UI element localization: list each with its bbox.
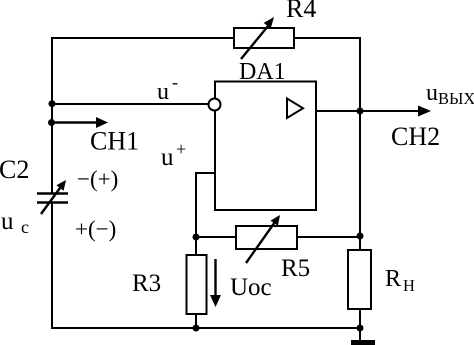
svg-text:u: u	[161, 144, 174, 171]
svg-text:+(−): +(−)	[75, 217, 116, 242]
wire left vertical lower	[51, 203, 53, 329]
svg-text:H: H	[403, 276, 415, 295]
ground	[351, 329, 375, 345]
svg-text:DA1: DA1	[239, 59, 286, 85]
svg-text:-: -	[172, 72, 178, 92]
wire right vertical feedback	[359, 37, 361, 250]
wire top horizontal	[51, 37, 234, 39]
node inverting input junction	[49, 100, 56, 107]
wire R3 top stub	[195, 237, 197, 255]
wire inverting input	[52, 103, 208, 105]
node R3 bottom junction	[193, 325, 200, 332]
resistor RH	[348, 250, 371, 309]
wire left vertical upper	[51, 38, 53, 193]
arrow output	[418, 106, 431, 117]
svg-text:CH1: CH1	[90, 127, 139, 156]
resistor R5	[236, 215, 297, 263]
svg-text:ВЫХ: ВЫХ	[438, 89, 474, 108]
node output junction	[357, 108, 364, 115]
wire node to R5	[196, 236, 236, 238]
svg-text:c: c	[21, 217, 29, 237]
wire bottom horizontal	[52, 327, 360, 329]
node R5 RH junction	[357, 233, 364, 240]
svg-text:−(+): −(+)	[77, 167, 118, 192]
node CH1 junction	[48, 119, 55, 126]
svg-text:Uoc: Uoc	[230, 274, 272, 301]
label uc	[1, 208, 29, 237]
resistor R3	[187, 255, 207, 314]
wire R5 to output node	[297, 236, 360, 238]
svg-text:u: u	[426, 80, 438, 106]
wire noninverting stub	[196, 173, 215, 237]
svg-text:R4: R4	[286, 0, 316, 23]
wire R4 to right corner	[294, 37, 360, 39]
svg-text:CH2: CH2	[391, 122, 440, 151]
svg-text:R3: R3	[132, 270, 161, 297]
svg-text:+: +	[176, 139, 186, 159]
arrow Uoc	[210, 259, 221, 307]
node R3 R5 junction	[193, 234, 200, 241]
svg-text:R: R	[385, 266, 401, 292]
svg-text:R5: R5	[281, 255, 310, 282]
capacitor C2	[37, 180, 68, 214]
label RH	[385, 266, 415, 295]
label u out	[426, 80, 474, 108]
wire RH bottom stub	[359, 309, 361, 329]
svg-text:u: u	[157, 79, 169, 105]
svg-text:C2: C2	[0, 155, 29, 184]
wire output	[316, 110, 422, 112]
wire R3 bottom stub	[195, 314, 197, 329]
node ground junction	[357, 325, 364, 332]
op-amp DA1	[209, 82, 317, 211]
svg-text:u: u	[1, 208, 14, 235]
label u plus	[161, 139, 186, 171]
resistor R4	[234, 17, 294, 59]
arrow CH1	[52, 117, 108, 128]
label u minus	[157, 72, 178, 105]
